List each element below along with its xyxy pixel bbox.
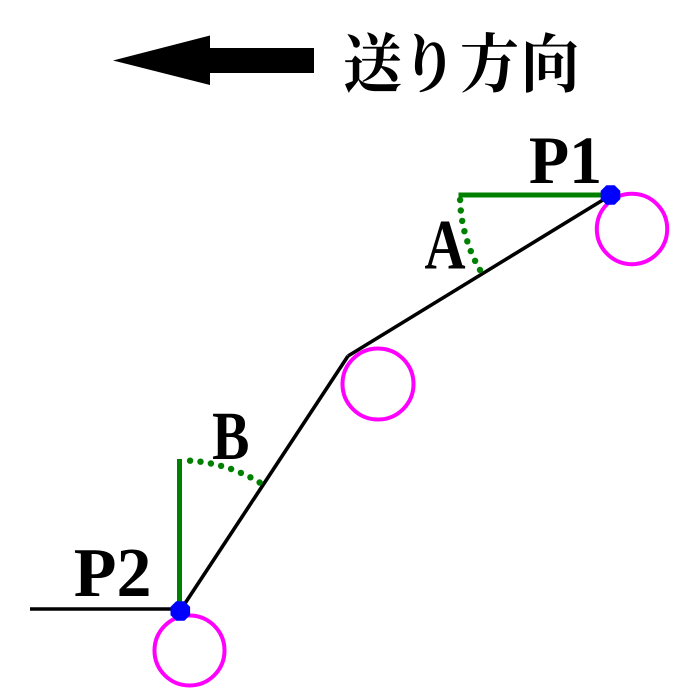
- kanji 向: [526, 32, 577, 92]
- svg-text:P2: P2: [74, 535, 152, 612]
- tool circle at P2: [155, 616, 225, 686]
- node P1 (blue dot): [601, 185, 621, 205]
- svg-text:A: A: [425, 206, 466, 284]
- green reference line at P2 (vertical): [177, 459, 182, 611]
- wire: black path segment bend to P2: [180, 356, 348, 611]
- angle A dotted arc: [457, 197, 483, 273]
- wire: black path segment P1 to bend: [348, 195, 611, 356]
- kanji 方: [462, 32, 517, 93]
- wire: horizontal line left of P2: [30, 607, 180, 610]
- feed-direction arrow: [113, 36, 314, 86]
- angle B dotted arc: [187, 458, 263, 486]
- tool circle at P1: [597, 194, 667, 264]
- svg-text:B: B: [212, 397, 249, 474]
- green reference line at P1 (horizontal): [459, 193, 612, 198]
- tool circle at bend: [343, 349, 414, 420]
- kanji り: [414, 34, 445, 93]
- node P2 (blue dot): [171, 601, 191, 621]
- kanji 送: [345, 32, 401, 93]
- svg-text:P1: P1: [529, 123, 602, 198]
